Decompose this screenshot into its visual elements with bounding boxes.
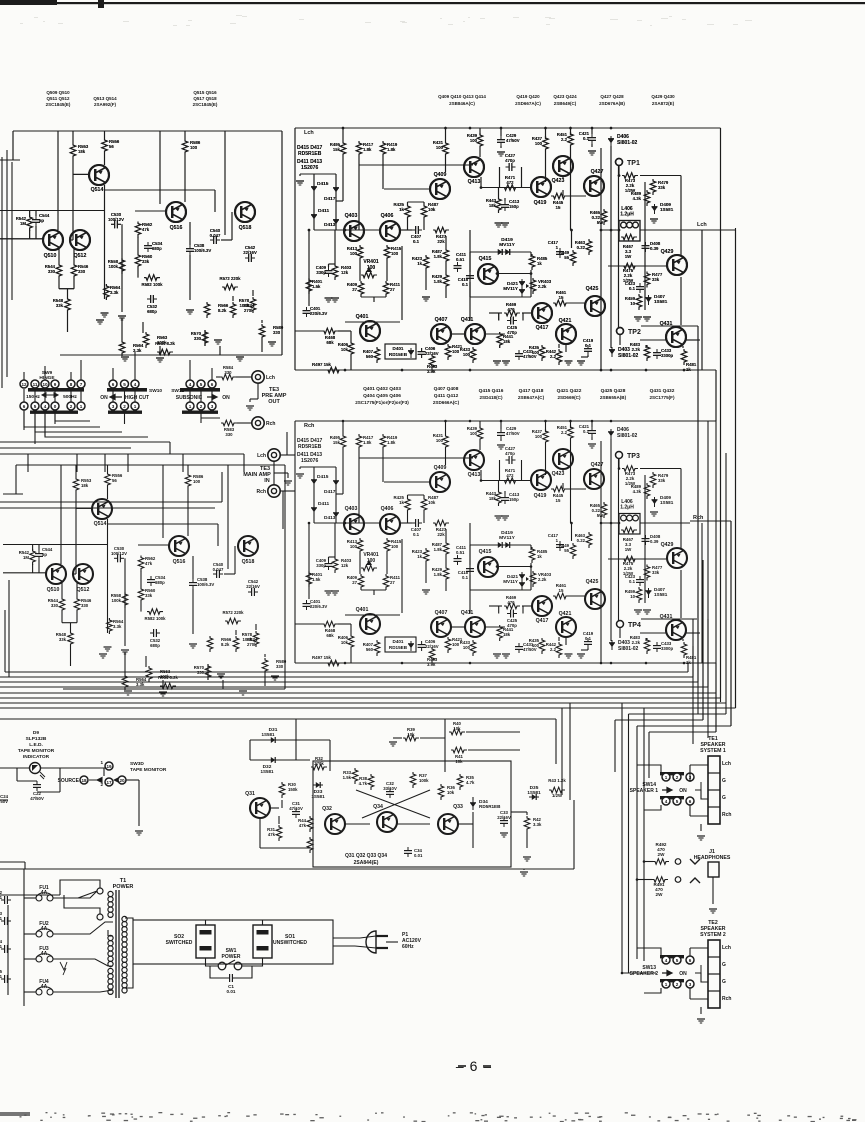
svg-text:Q33: Q33: [453, 804, 463, 810]
svg-text:Q421 Q422: Q421 Q422: [557, 388, 582, 394]
svg-text:Q411 Q412: Q411 Q412: [434, 393, 459, 399]
svg-text:2SB647A(C): 2SB647A(C): [518, 395, 545, 400]
svg-text:4: 4: [44, 404, 47, 409]
svg-text:4.7k: 4.7k: [359, 781, 368, 786]
svg-text:2SB846A(C): 2SB846A(C): [449, 101, 475, 106]
svg-text:G: G: [722, 979, 726, 985]
svg-text:Q417 Q418: Q417 Q418: [519, 388, 544, 394]
svg-text:47/10V: 47/10V: [289, 806, 303, 811]
svg-text:Q32: Q32: [322, 806, 332, 812]
svg-text:Q423 Q424: Q423 Q424: [553, 94, 577, 99]
svg-text:3: 3: [211, 404, 214, 409]
svg-text:SOURCE: SOURCE: [58, 778, 80, 784]
svg-text:Lch: Lch: [722, 945, 731, 951]
svg-text:1S581: 1S581: [260, 769, 274, 774]
svg-text:Q407 Q408: Q407 Q408: [434, 386, 459, 392]
svg-text:4.7k: 4.7k: [466, 780, 475, 785]
svg-text:G: G: [722, 778, 726, 784]
svg-text:10k: 10k: [407, 732, 415, 737]
svg-text:Q429 Q430: Q429 Q430: [651, 94, 675, 99]
svg-text:TP3: TP3: [627, 453, 640, 460]
svg-text:2SB655A(B): 2SB655A(B): [600, 395, 627, 400]
svg-text:Q34: Q34: [373, 804, 383, 810]
svg-text:TAPE MONITOR: TAPE MONITOR: [18, 748, 55, 754]
svg-text:1/2W: 1/2W: [552, 793, 563, 798]
svg-text:4: 4: [665, 958, 668, 963]
svg-text:1.5k: 1.5k: [343, 775, 352, 780]
svg-text:22/16V: 22/16V: [497, 815, 511, 820]
svg-text:47/50V: 47/50V: [30, 796, 44, 801]
svg-text:12: 12: [21, 382, 27, 387]
svg-text:6: 6: [112, 382, 115, 387]
svg-text:Q425 Q428: Q425 Q428: [601, 388, 626, 394]
svg-text:R43 1.2k: R43 1.2k: [548, 778, 566, 783]
svg-text:2SA844(E): 2SA844(E): [354, 860, 379, 866]
svg-text:19: 19: [106, 764, 112, 769]
svg-text:1S581: 1S581: [527, 790, 541, 795]
svg-text:SPEAKER 2: SPEAKER 2: [630, 971, 659, 977]
svg-text:2SD676A(B): 2SD676A(B): [599, 101, 625, 106]
svg-text:1: 1: [665, 775, 668, 780]
svg-text:D9: D9: [33, 730, 39, 736]
svg-text:1S581: 1S581: [311, 794, 325, 799]
svg-text:2SA872(E): 2SA872(E): [652, 101, 675, 106]
svg-text:INDICATOR: INDICATOR: [23, 754, 50, 760]
svg-text:Q511 Q512: Q511 Q512: [46, 96, 70, 101]
svg-text:Q415 Q416: Q415 Q416: [479, 388, 504, 394]
svg-text:TAPE MONITOR: TAPE MONITOR: [130, 767, 167, 773]
svg-text:17: 17: [106, 780, 112, 785]
svg-text:SPEAKER 1: SPEAKER 1: [630, 788, 659, 794]
svg-text:Lch: Lch: [722, 761, 731, 767]
svg-text:G: G: [722, 795, 726, 801]
svg-text:2SD667A(C): 2SD667A(C): [515, 101, 541, 106]
svg-text:2SC1775(F): 2SC1775(F): [649, 395, 674, 400]
svg-text:0.01: 0.01: [414, 853, 423, 858]
svg-text:Q31 Q32 Q33 Q34: Q31 Q32 Q33 Q34: [345, 853, 387, 859]
svg-text:Q419 Q420: Q419 Q420: [516, 94, 540, 99]
svg-text:20: 20: [119, 778, 125, 783]
svg-text:9: 9: [54, 382, 57, 387]
svg-text:Rch: Rch: [257, 489, 266, 495]
svg-text:270k: 270k: [314, 761, 324, 766]
svg-text:33/10V: 33/10V: [383, 786, 397, 791]
svg-text:47/50V: 47/50V: [0, 799, 8, 804]
svg-text:10: 10: [42, 382, 48, 387]
svg-text:Q431 Q432: Q431 Q432: [650, 388, 675, 394]
svg-text:6: 6: [211, 382, 214, 387]
svg-text:0: 0: [54, 404, 57, 409]
svg-text:L.E.D.: L.E.D.: [29, 742, 43, 748]
svg-text:5: 5: [200, 382, 203, 387]
svg-text:ON: ON: [679, 788, 687, 794]
svg-text:10k: 10k: [447, 790, 455, 795]
svg-text:Q509 Q510: Q509 Q510: [46, 90, 70, 95]
svg-text:5: 5: [676, 958, 679, 963]
svg-text:Rch: Rch: [722, 996, 731, 1002]
svg-text:47k: 47k: [299, 823, 307, 828]
svg-text:1S581: 1S581: [261, 732, 275, 737]
svg-text:5: 5: [34, 404, 37, 409]
svg-text:2SC1845(E): 2SC1845(E): [46, 102, 71, 107]
svg-text:ON: ON: [222, 395, 230, 401]
svg-text:2W: 2W: [658, 852, 666, 857]
svg-text:2SC1845(E): 2SC1845(E): [193, 102, 218, 107]
svg-text:2: 2: [70, 404, 73, 409]
svg-text:Q404 Q405 Q406: Q404 Q405 Q406: [363, 393, 401, 399]
svg-text:Rch: Rch: [266, 421, 275, 427]
svg-text:18: 18: [81, 778, 87, 783]
svg-text:8: 8: [70, 382, 73, 387]
svg-text:Q515 Q516: Q515 Q516: [193, 90, 217, 95]
svg-text:RD5R1EB: RD5R1EB: [479, 804, 501, 809]
svg-text:1: 1: [100, 760, 103, 765]
svg-text:ON: ON: [100, 395, 108, 401]
svg-text:UNSWITCHED: UNSWITCHED: [273, 940, 307, 946]
svg-text:TP1: TP1: [627, 160, 640, 167]
svg-text:2SD669(C): 2SD669(C): [558, 395, 581, 400]
svg-text:SW10: SW10: [149, 388, 162, 394]
svg-text:SW3D: SW3D: [130, 761, 144, 767]
svg-text:TP4: TP4: [628, 622, 641, 629]
svg-text:330: 330: [224, 370, 232, 375]
svg-text:2SA992(F): 2SA992(F): [94, 102, 117, 107]
svg-text:330: 330: [225, 432, 233, 437]
svg-text:SUBSONIC: SUBSONIC: [176, 395, 203, 401]
svg-text:2: 2: [676, 775, 679, 780]
svg-text:10k: 10k: [455, 759, 463, 764]
svg-text:3.3k: 3.3k: [533, 822, 542, 827]
svg-text:2: 2: [123, 404, 126, 409]
svg-text:1: 1: [665, 982, 668, 987]
svg-text:150Hz: 150Hz: [26, 394, 40, 400]
svg-text:5: 5: [676, 799, 679, 804]
svg-text:OUT: OUT: [268, 399, 280, 405]
svg-text:2SC1775(F1)or(F2)or(F3): 2SC1775(F1)or(F2)or(F3): [355, 400, 409, 405]
svg-text:POWER: POWER: [222, 954, 241, 960]
svg-text:SYSTEM 2: SYSTEM 2: [700, 932, 726, 938]
svg-text:1: 1: [134, 404, 137, 409]
svg-text:2SB649(C): 2SB649(C): [554, 101, 577, 106]
svg-text:2SD418(C): 2SD418(C): [480, 395, 503, 400]
svg-text:2SD666A(C): 2SD666A(C): [433, 400, 460, 405]
svg-text:4: 4: [134, 382, 137, 387]
svg-text:2: 2: [200, 404, 203, 409]
svg-text:2W: 2W: [656, 892, 664, 897]
svg-text:IN: IN: [264, 478, 270, 484]
svg-text:SLP132B: SLP132B: [26, 736, 47, 742]
svg-text:0.01: 0.01: [227, 989, 236, 994]
svg-text:G: G: [722, 962, 726, 968]
svg-text:6: 6: [689, 958, 692, 963]
svg-text:SWITCHED: SWITCHED: [166, 940, 193, 946]
svg-text:Rch: Rch: [722, 812, 731, 818]
svg-text:Q409 Q410 Q413 Q414: Q409 Q410 Q413 Q414: [438, 94, 486, 99]
svg-text:Lch: Lch: [257, 453, 266, 459]
svg-text:Lch: Lch: [304, 130, 314, 136]
svg-text:47k: 47k: [268, 832, 276, 837]
svg-text:5: 5: [123, 382, 126, 387]
svg-text:Lch: Lch: [266, 375, 275, 381]
svg-text:Rch: Rch: [304, 423, 315, 429]
svg-text:60Hz: 60Hz: [402, 944, 414, 950]
svg-text:SYSTEM 1: SYSTEM 1: [700, 748, 726, 754]
svg-text:TP2: TP2: [628, 329, 641, 336]
svg-text:6: 6: [23, 404, 26, 409]
svg-text:4: 4: [189, 382, 192, 387]
svg-text:100k: 100k: [419, 778, 429, 783]
svg-text:500Hz: 500Hz: [63, 394, 77, 400]
svg-text:6: 6: [689, 799, 692, 804]
svg-text:Q31: Q31: [245, 791, 255, 797]
svg-text:Q517 Q518: Q517 Q518: [193, 96, 217, 101]
svg-text:1: 1: [189, 404, 192, 409]
svg-text:3: 3: [112, 404, 115, 409]
svg-text:7: 7: [80, 382, 83, 387]
svg-text:Q401 Q402 Q403: Q401 Q402 Q403: [363, 386, 401, 392]
svg-text:2: 2: [676, 982, 679, 987]
svg-text:10k: 10k: [453, 726, 461, 731]
svg-text:Q513 Q514: Q513 Q514: [93, 96, 117, 101]
svg-text:3: 3: [689, 982, 692, 987]
svg-text:4: 4: [665, 799, 668, 804]
svg-text:POWER: POWER: [113, 884, 134, 890]
svg-text:ON: ON: [679, 971, 687, 977]
svg-text:Q427 Q428: Q427 Q428: [600, 94, 624, 99]
svg-text:150k: 150k: [288, 787, 298, 792]
svg-text:1: 1: [80, 404, 83, 409]
svg-text:11: 11: [33, 382, 38, 387]
svg-text:Lch: Lch: [697, 222, 707, 228]
svg-text:HIGH CUT: HIGH CUT: [125, 395, 149, 401]
